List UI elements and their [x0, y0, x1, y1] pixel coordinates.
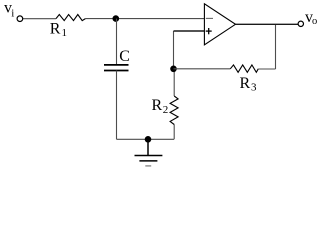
svg-text:3: 3: [251, 82, 257, 94]
svg-text:i: i: [11, 8, 14, 20]
svg-text:R: R: [240, 75, 251, 92]
svg-text:R: R: [50, 21, 61, 38]
svg-text:o: o: [312, 16, 317, 27]
svg-text:R: R: [152, 97, 163, 114]
svg-text:2: 2: [163, 104, 169, 116]
svg-text:1: 1: [62, 27, 68, 39]
svg-text:C: C: [119, 48, 130, 65]
